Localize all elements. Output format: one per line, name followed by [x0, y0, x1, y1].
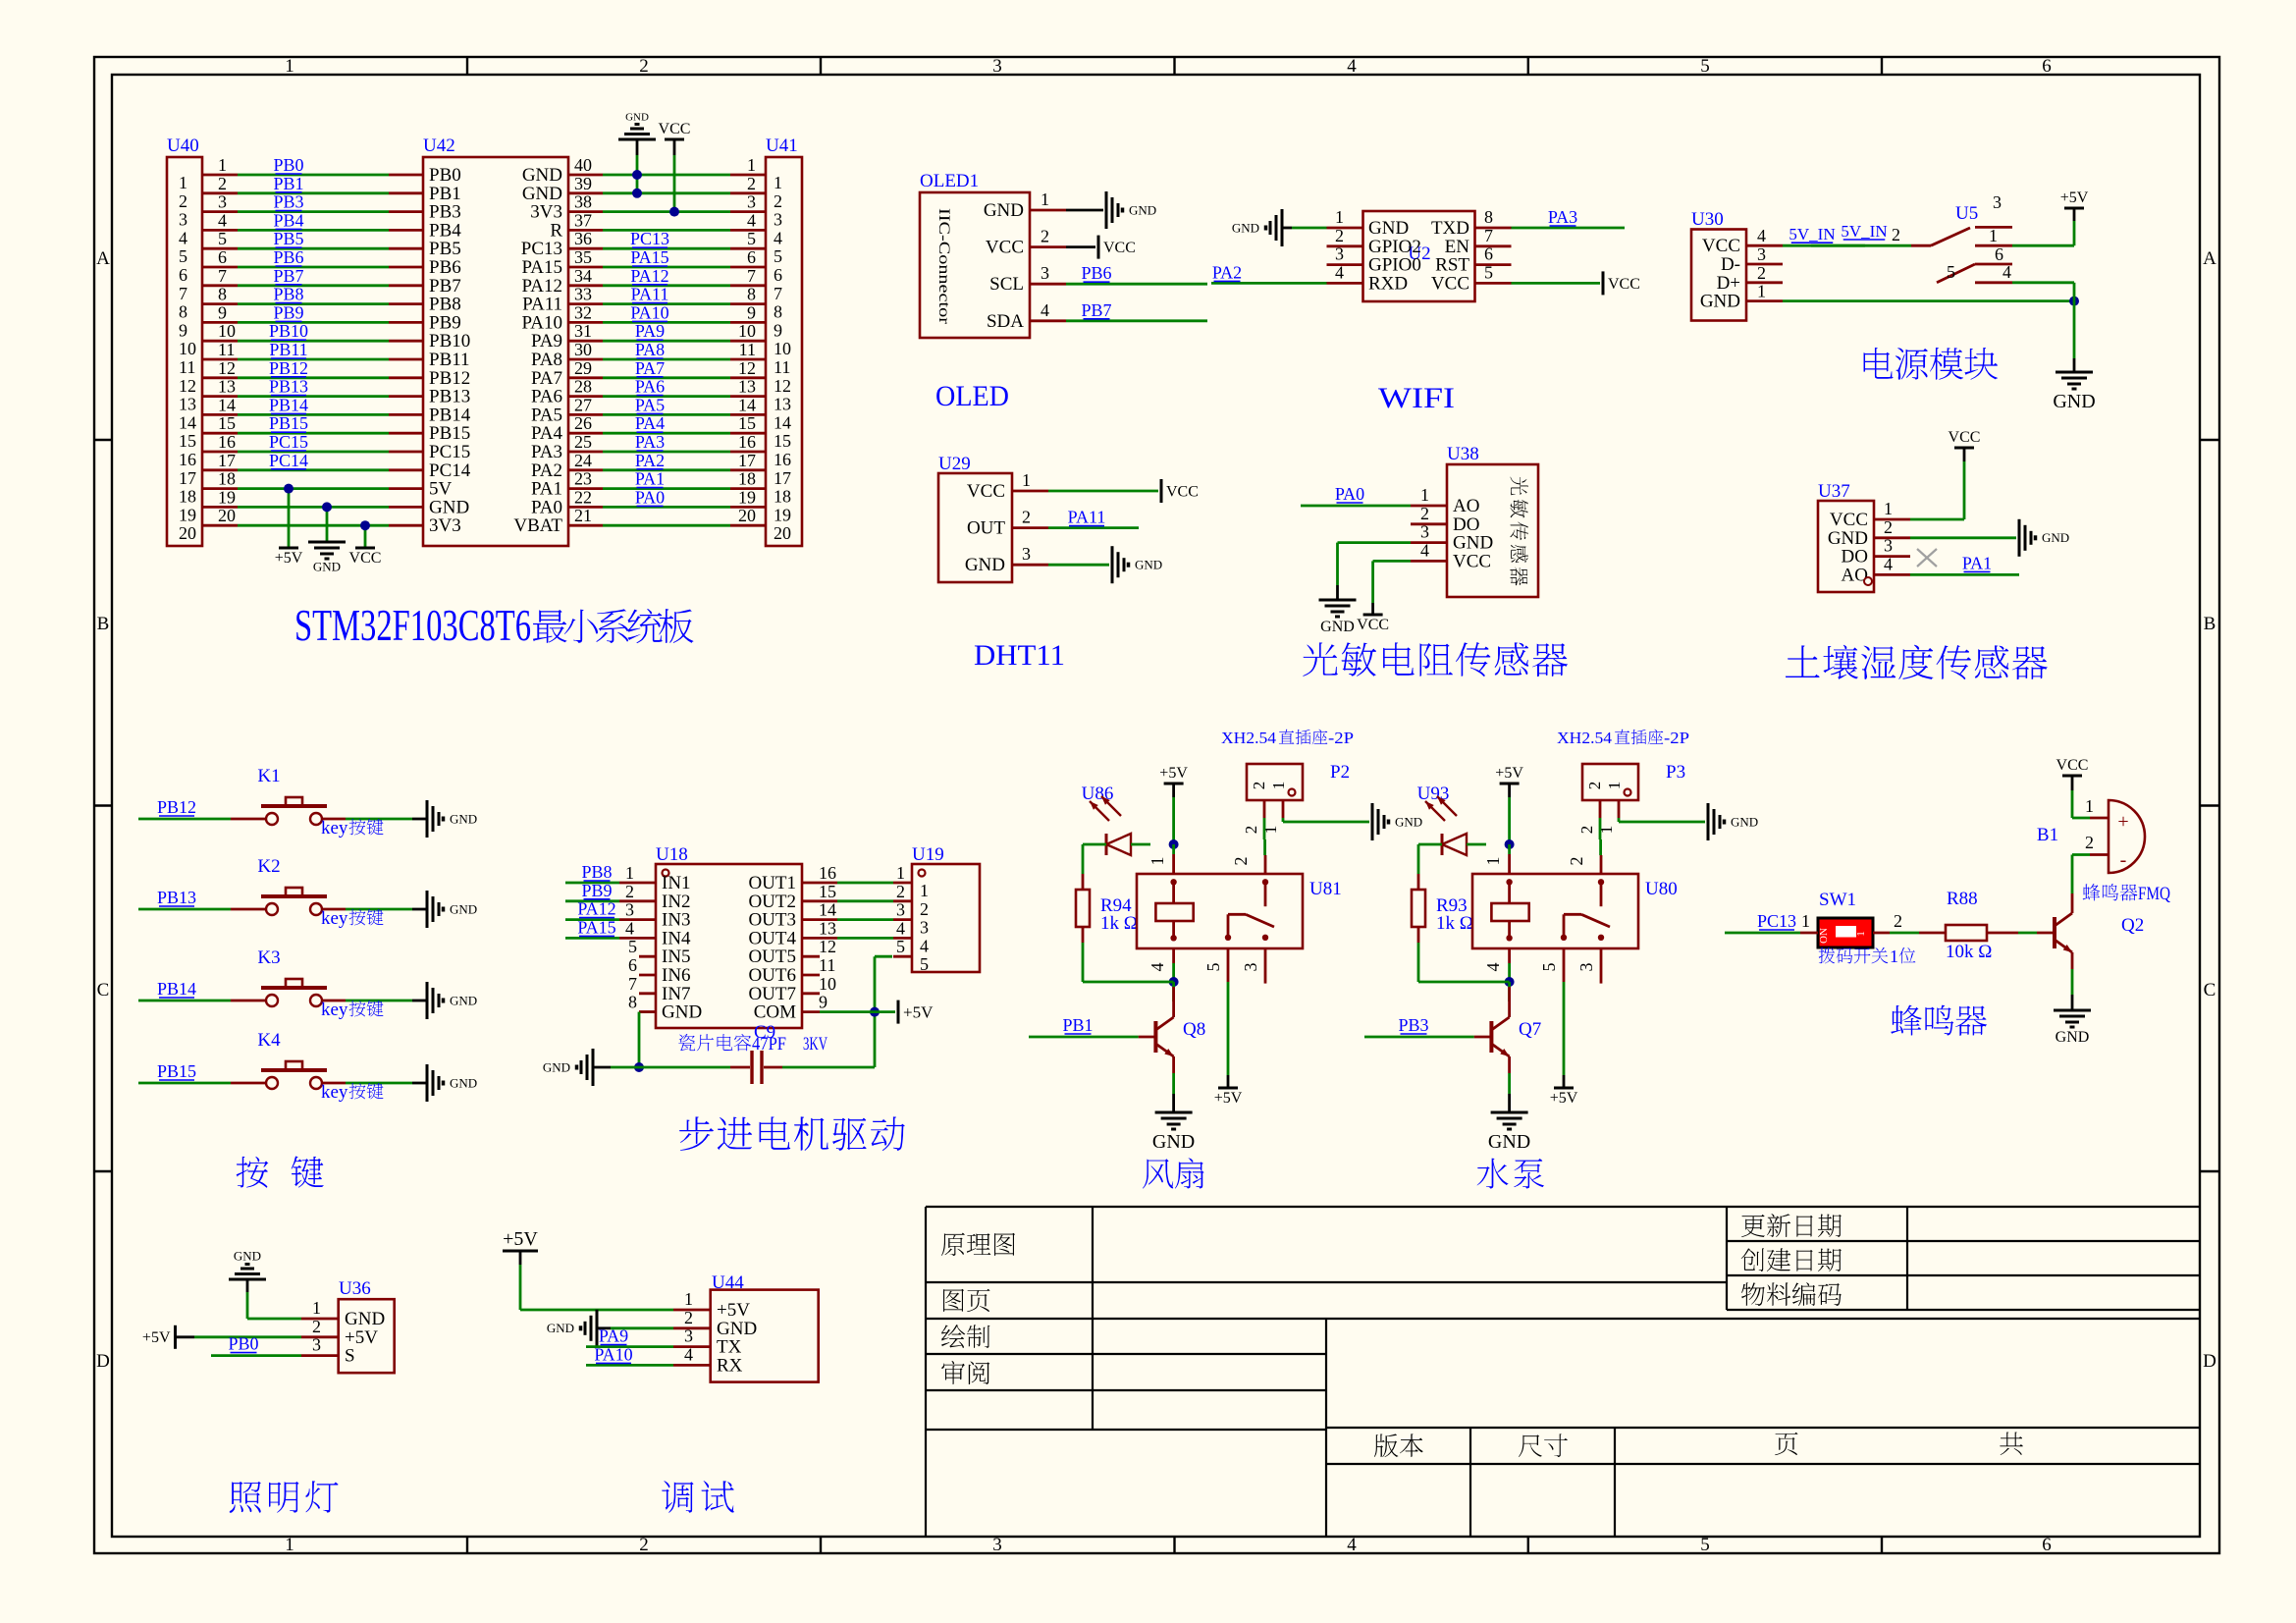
svg-text:2: 2: [1894, 911, 1902, 931]
svg-text:9: 9: [747, 302, 756, 322]
svg-text:A: A: [96, 248, 110, 269]
svg-text:10: 10: [819, 974, 836, 994]
svg-text:10k Ω: 10k Ω: [1946, 942, 1992, 962]
svg-text:PA9: PA9: [635, 321, 665, 341]
wire relay U80 pin4: [1483, 948, 1510, 982]
wire PA4 U42 pin26 to U41: [603, 413, 730, 433]
svg-text:3: 3: [747, 192, 756, 212]
wire buzzer pin2 to Q2 collector: [2072, 855, 2090, 894]
svg-text:3: 3: [1576, 963, 1596, 972]
ground GND at U29 pin3: [1111, 546, 1114, 583]
svg-text:38: 38: [574, 192, 592, 212]
svg-text:VCC: VCC: [659, 121, 691, 137]
wire 3V3 U42 pin38 to U41: [603, 210, 730, 213]
svg-text:5: 5: [628, 937, 637, 956]
svg-text:4: 4: [1347, 1535, 1357, 1555]
svg-text:14: 14: [819, 900, 836, 920]
power VCC of buzzer: [2056, 757, 2089, 818]
wire U5 pin1 to +5V: [2012, 244, 2074, 247]
wire relay U81 pin1 to +5V: [1148, 844, 1174, 874]
svg-text:PB4: PB4: [273, 210, 303, 230]
svg-text:GND: GND: [1395, 814, 1422, 829]
svg-text:1: 1: [684, 1289, 693, 1309]
svg-text:+5V: +5V: [1495, 765, 1523, 782]
connector U19: [893, 844, 980, 974]
svg-text:23: 23: [574, 469, 592, 489]
wire U18 OUT2 to U19 pin2: [837, 899, 893, 902]
svg-text:3: 3: [1022, 544, 1031, 564]
power +5V below relay U81: [1218, 1087, 1238, 1090]
svg-text:VCC: VCC: [2056, 757, 2089, 774]
svg-text:PA4: PA4: [635, 413, 665, 433]
svg-text:3: 3: [920, 918, 929, 938]
svg-text:B: B: [2204, 614, 2216, 634]
wire PB9 to U18 IN2: [565, 881, 619, 901]
svg-text:2: 2: [1250, 782, 1268, 790]
power +5V of power module: [2060, 189, 2089, 245]
svg-text:16: 16: [819, 863, 836, 883]
wire relay U81 pin5 to +5V: [1203, 948, 1228, 1088]
svg-text:11: 11: [774, 357, 790, 377]
svg-text:GND: GND: [234, 1249, 261, 1264]
svg-text:5: 5: [218, 229, 227, 248]
svg-text:5: 5: [1700, 1535, 1710, 1555]
ground GND at K4: [426, 1064, 429, 1102]
wire PB14 U40 pin14 to U42: [238, 395, 389, 414]
svg-text:PA3: PA3: [635, 432, 665, 452]
svg-text:20: 20: [218, 506, 236, 525]
wire GND U40 pin19 to U42: [238, 506, 389, 509]
svg-text:5: 5: [920, 954, 929, 974]
svg-text:U38: U38: [1447, 444, 1479, 464]
connector P3 XH2.54: [1577, 762, 1685, 834]
svg-text:11: 11: [179, 357, 195, 377]
junction: [632, 170, 642, 180]
wire PA15 to U18 IN4: [565, 917, 619, 938]
svg-text:SDA: SDA: [987, 311, 1024, 332]
svg-text:5: 5: [1203, 963, 1223, 972]
wire PB12 to K1: [138, 797, 231, 819]
pushbutton K2: [231, 856, 346, 915]
svg-text:6: 6: [2042, 56, 2052, 77]
svg-text:16: 16: [179, 450, 196, 469]
wire U18 OUT3 to U19 pin3: [837, 918, 893, 921]
svg-text:1: 1: [179, 173, 187, 192]
svg-text:4: 4: [179, 228, 187, 247]
svg-text:RXD: RXD: [1368, 273, 1408, 294]
junction: [1505, 977, 1515, 987]
junction: [284, 484, 294, 494]
svg-text:PB7: PB7: [273, 266, 303, 286]
svg-text:7: 7: [1484, 226, 1493, 245]
wire PB5 U40 pin5 to U42: [238, 229, 389, 248]
svg-text:PB11: PB11: [269, 340, 307, 359]
svg-text:GND: GND: [984, 200, 1024, 221]
svg-text:+5V: +5V: [1159, 765, 1188, 782]
svg-text:13: 13: [819, 918, 836, 938]
svg-text:37: 37: [574, 210, 592, 230]
wire PA9 to U44 TX: [586, 1326, 673, 1347]
wire PA10 to U44 RX: [586, 1344, 673, 1365]
wire U29 VCC: [1048, 490, 1158, 493]
svg-text:4: 4: [747, 210, 756, 230]
svg-text:3: 3: [992, 1535, 1002, 1555]
svg-text:6: 6: [1995, 244, 2003, 264]
svg-text:2: 2: [920, 899, 929, 919]
svg-text:PB7: PB7: [1081, 300, 1111, 320]
svg-text:PA6: PA6: [635, 377, 665, 397]
wire 3V3 U40 pin20 to U42: [238, 524, 389, 527]
svg-text:8: 8: [1484, 207, 1493, 227]
wire U29 GND: [1048, 564, 1109, 567]
wire 5V U40 pin18 to U42: [238, 487, 389, 490]
power VCC at OLED pin2: [1097, 236, 1100, 259]
svg-text:PB6: PB6: [1081, 263, 1111, 283]
svg-text:U19: U19: [912, 844, 944, 865]
connector U41: [730, 135, 802, 546]
svg-text:18: 18: [738, 469, 756, 489]
label XH2.54 connector P2: [1221, 729, 1354, 747]
svg-text:U42: U42: [423, 135, 455, 156]
wire PA11 U42 pin33 to U41: [603, 285, 730, 304]
power +5V below U40: [275, 489, 303, 568]
wire PB15 to K4: [138, 1061, 231, 1083]
svg-text:4: 4: [684, 1344, 693, 1364]
stub relay U80 pin3: [1576, 948, 1601, 984]
svg-text:GND: GND: [1135, 558, 1162, 572]
svg-text:OLED: OLED: [935, 380, 1009, 412]
svg-text:D: D: [96, 1351, 110, 1372]
wire junction to transistor Q8: [1172, 982, 1175, 1001]
svg-text:12: 12: [774, 376, 791, 396]
wire PA5 U42 pin27 to U41: [603, 395, 730, 414]
svg-text:14: 14: [218, 395, 236, 414]
wire K4 to ground: [346, 1082, 427, 1085]
module U2 ESP8266 WIFI: [1327, 207, 1512, 301]
svg-text:13: 13: [179, 395, 196, 414]
svg-text:+5V: +5V: [1214, 1090, 1243, 1107]
svg-text:2: 2: [1420, 504, 1429, 523]
svg-text:4: 4: [218, 210, 227, 230]
svg-text:3: 3: [896, 900, 905, 920]
svg-text:PB0: PB0: [273, 155, 303, 175]
wire K2 to ground: [346, 908, 427, 911]
svg-text:6: 6: [774, 265, 782, 285]
svg-text:19: 19: [738, 487, 756, 507]
junction: [360, 520, 370, 530]
svg-text:PB9: PB9: [581, 881, 612, 900]
svg-text:R88: R88: [1947, 889, 1978, 909]
switch SW1 DIP: [1818, 890, 1873, 947]
svg-text:7: 7: [628, 974, 637, 994]
svg-text:GND: GND: [1129, 202, 1156, 217]
svg-text:1: 1: [1420, 485, 1429, 505]
pushbutton K1: [231, 766, 346, 825]
svg-text:PA9: PA9: [599, 1326, 628, 1346]
svg-text:8: 8: [218, 285, 227, 304]
svg-text:17: 17: [218, 451, 236, 470]
resistor R94 1k: [1076, 844, 1138, 982]
svg-text:GND: GND: [450, 1075, 477, 1090]
svg-text:GND: GND: [313, 559, 341, 573]
title photoresistor sensor: [1303, 642, 1337, 676]
ground GND rail left: [543, 1049, 639, 1086]
svg-text:SCL: SCL: [989, 274, 1024, 295]
svg-text:34: 34: [574, 266, 592, 286]
svg-text:-2P: -2P: [1328, 729, 1354, 747]
pushbutton K4: [231, 1030, 346, 1089]
svg-text:47PF: 47PF: [752, 1034, 786, 1055]
svg-text:3V3: 3V3: [429, 515, 461, 536]
svg-text:12: 12: [179, 376, 196, 396]
svg-text:key: key: [321, 1000, 348, 1020]
svg-text:14: 14: [774, 412, 791, 432]
svg-text:GND: GND: [1488, 1131, 1530, 1153]
wire PB12 U40 pin12 to U42: [238, 358, 389, 378]
svg-text:2: 2: [179, 191, 187, 211]
svg-text:VCC: VCC: [1357, 617, 1389, 633]
IC U18 ULN2003 driver: [619, 844, 837, 1028]
svg-text:2: 2: [1892, 225, 1900, 244]
svg-text:3: 3: [1241, 963, 1260, 972]
svg-text:VCC: VCC: [1949, 429, 1981, 446]
svg-text:PA0: PA0: [1335, 484, 1364, 504]
svg-text:20: 20: [774, 523, 791, 543]
svg-text:PB14: PB14: [157, 979, 196, 999]
svg-text:3: 3: [1420, 522, 1429, 542]
wire U37 VCC up: [1910, 448, 1964, 519]
svg-text:+5V: +5V: [503, 1228, 538, 1250]
svg-text:16: 16: [218, 432, 236, 452]
svg-text:PA15: PA15: [630, 247, 668, 267]
svg-text:U29: U29: [938, 454, 971, 474]
power VCC above U42: [659, 121, 691, 212]
title block labels: [941, 1214, 2023, 1457]
svg-text:33: 33: [574, 285, 592, 304]
svg-text:3: 3: [1335, 244, 1344, 264]
ground GND at OLED pin1: [1105, 191, 1108, 229]
svg-text:PB10: PB10: [269, 321, 308, 341]
svg-text:Q8: Q8: [1183, 1019, 1205, 1040]
svg-text:C: C: [97, 980, 110, 1001]
wire PA3 U42 pin25 to U41: [603, 432, 730, 452]
title debug: [662, 1481, 693, 1512]
svg-text:3: 3: [684, 1326, 693, 1346]
wire U2 pin1 to ground: [1292, 227, 1327, 230]
svg-text:15: 15: [738, 413, 756, 433]
svg-text:5: 5: [1700, 56, 1710, 77]
junction: [669, 207, 679, 217]
svg-text:1: 1: [1801, 911, 1810, 931]
wire PC14 U40 pin17 to U42: [238, 451, 389, 470]
wire PB14 to K3: [138, 979, 231, 1001]
svg-text:7: 7: [179, 284, 187, 303]
wire GND U42 pin40 to U41: [603, 174, 730, 177]
svg-text:C: C: [2204, 980, 2216, 1001]
svg-text:5: 5: [1484, 262, 1493, 282]
svg-text:U81: U81: [1309, 879, 1342, 899]
svg-text:1: 1: [1884, 499, 1893, 518]
svg-text:FMQ: FMQ: [2138, 884, 2170, 904]
svg-text:+5V: +5V: [903, 1002, 934, 1021]
svg-text:6: 6: [179, 265, 187, 285]
power VCC at U2 pin5: [1602, 271, 1605, 295]
svg-text:2: 2: [1567, 857, 1586, 866]
svg-text:K2: K2: [257, 856, 280, 877]
svg-text:35: 35: [574, 247, 592, 267]
svg-text:PB12: PB12: [269, 358, 308, 378]
title power module: [1864, 348, 1894, 379]
svg-text:D: D: [2203, 1351, 2216, 1372]
svg-text:PC14: PC14: [269, 451, 308, 470]
wire PA9 U42 pin31 to U41: [603, 321, 730, 341]
wire PA12 to U18 IN3: [565, 899, 619, 920]
svg-text:20: 20: [738, 506, 756, 525]
wire PA15 U42 pin35 to U41: [603, 247, 730, 267]
svg-text:19: 19: [179, 505, 196, 524]
wire resistor R93 bottom to junction: [1418, 981, 1510, 984]
svg-text:PA3: PA3: [1548, 207, 1577, 227]
svg-text:15: 15: [774, 431, 791, 451]
wire PB10 U40 pin10 to U42: [238, 321, 389, 341]
power +5V at U18 COM: [897, 1001, 900, 1024]
svg-text:1: 1: [285, 1535, 294, 1555]
junction: [870, 1007, 880, 1017]
svg-text:24: 24: [574, 451, 592, 470]
svg-text:18: 18: [218, 469, 236, 489]
module U36 lamp: [301, 1278, 395, 1373]
svg-text:11: 11: [218, 340, 235, 359]
junction: [322, 502, 332, 512]
svg-text:16: 16: [774, 450, 791, 469]
wire PB3 U40 pin3 to U42: [238, 192, 389, 212]
ground GND at U38 pin3: [1319, 599, 1357, 602]
svg-text:GND: GND: [547, 1321, 574, 1335]
junction: [1169, 977, 1179, 987]
svg-text:4: 4: [1483, 963, 1503, 972]
ground GND at K1: [426, 800, 429, 838]
power VCC at U37 pin1: [1954, 447, 1974, 450]
svg-text:10: 10: [738, 321, 756, 341]
title buzzer: [1891, 1005, 1922, 1036]
svg-text:GND: GND: [450, 901, 477, 916]
wire P3 pin1 to ground: [1619, 818, 1705, 822]
svg-text:2: 2: [1022, 508, 1031, 527]
svg-text:4: 4: [1884, 554, 1893, 573]
svg-text:P3: P3: [1666, 762, 1685, 783]
svg-text:2: 2: [1577, 826, 1596, 835]
svg-text:15: 15: [819, 882, 836, 901]
svg-text:18: 18: [179, 487, 196, 507]
svg-text:2: 2: [1231, 857, 1251, 866]
svg-text:U18: U18: [656, 844, 688, 865]
wire VBAT U42 pin21 to U41: [603, 524, 730, 527]
junction: [2069, 297, 2079, 306]
svg-text:10: 10: [774, 339, 791, 358]
svg-text:14: 14: [179, 412, 196, 432]
label key of K2: [321, 908, 384, 929]
svg-text:K1: K1: [257, 766, 280, 786]
svg-text:PC15: PC15: [269, 432, 308, 452]
ground GND at P2: [1371, 803, 1374, 840]
svg-text:2: 2: [639, 1535, 649, 1555]
wire PA7 U42 pin29 to U41: [603, 358, 730, 378]
svg-text:PA8: PA8: [635, 340, 665, 359]
wire PB7 from OLED SDA: [1066, 300, 1207, 321]
ground GND above U36: [229, 1249, 301, 1320]
svg-text:PA1: PA1: [1962, 553, 1992, 572]
svg-text:29: 29: [574, 358, 592, 378]
svg-text:3: 3: [1884, 536, 1893, 556]
sensor U37 soil moisture: [1818, 481, 1910, 592]
connector OLED1: [920, 171, 1066, 338]
wire PA2 to U2 RXD: [1211, 262, 1327, 283]
svg-text:PA0: PA0: [635, 487, 665, 507]
svg-text:2: 2: [1757, 263, 1766, 283]
svg-text:PA15: PA15: [577, 917, 615, 937]
svg-text:22: 22: [574, 487, 592, 507]
svg-text:STM32F103C8T6: STM32F103C8T6: [294, 600, 531, 650]
svg-text:26: 26: [574, 413, 592, 433]
relay U81: [1137, 874, 1342, 948]
power +5V below relay U80: [1554, 1087, 1574, 1090]
svg-text:39: 39: [574, 174, 592, 193]
svg-text:key: key: [321, 908, 348, 929]
label key of K1: [321, 818, 384, 839]
wire PB0 U40 pin1 to U42: [238, 155, 389, 175]
svg-text:PA2: PA2: [1212, 262, 1242, 282]
wire OLED pin1 to ground: [1066, 209, 1103, 212]
wire P2 pin1 to ground: [1283, 818, 1369, 822]
svg-text:17: 17: [774, 468, 791, 488]
wire U30 GND net: [1783, 299, 2074, 302]
title block: [926, 1207, 2200, 1537]
svg-text:1k Ω: 1k Ω: [1436, 913, 1473, 934]
svg-text:5: 5: [747, 229, 756, 248]
svg-text:S: S: [345, 1346, 355, 1367]
svg-text:1: 1: [2085, 796, 2094, 816]
svg-text:27: 27: [574, 395, 592, 414]
svg-text:GND: GND: [2053, 391, 2095, 412]
junction: [634, 1062, 644, 1072]
svg-text:9: 9: [218, 302, 227, 322]
ground GND at U44 pin2: [547, 1310, 673, 1347]
wire U2 VCC pin: [1512, 282, 1601, 285]
svg-text:1: 1: [1855, 931, 1867, 937]
wire PB9 U40 pin9 to U42: [238, 302, 389, 322]
svg-text:2: 2: [1242, 826, 1260, 835]
svg-text:OUT: OUT: [967, 518, 1005, 539]
pushbutton K3: [231, 947, 346, 1006]
wire resistor R94 bottom to junction: [1083, 981, 1174, 984]
resistor R88 10k: [1919, 889, 2018, 962]
svg-text:36: 36: [574, 229, 592, 248]
svg-text:9: 9: [819, 993, 828, 1012]
svg-text:1: 1: [1890, 947, 1898, 966]
svg-text:VCC: VCC: [1608, 276, 1640, 293]
svg-text:PC13: PC13: [1757, 911, 1796, 931]
svg-text:OLED1: OLED1: [920, 171, 979, 191]
svg-text:1: 1: [1269, 782, 1288, 790]
svg-text:6: 6: [2042, 1535, 2052, 1555]
transistor Q8: [1155, 987, 1173, 1073]
svg-text:DHT11: DHT11: [974, 639, 1065, 672]
svg-text:IIC-Connector: IIC-Connector: [935, 208, 952, 325]
svg-text:COM: COM: [754, 1002, 796, 1023]
svg-text:PC13: PC13: [630, 229, 669, 248]
svg-text:WIFI: WIFI: [1378, 382, 1455, 414]
svg-text:1: 1: [747, 155, 756, 175]
